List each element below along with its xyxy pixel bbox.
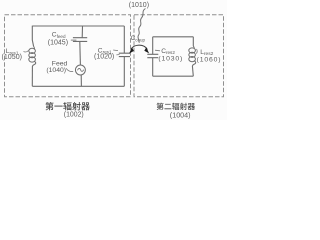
wire: left resonator right vertical upper — [123, 26, 125, 53]
svg-text:(1002): (1002) — [64, 111, 84, 118]
leader from (1020) to plates — [116, 54, 119, 56]
second radiator dashed box (1004) — [134, 15, 224, 97]
svg-text:(1060): (1060) — [197, 57, 222, 64]
inductor L_res2 coil — [192, 46, 195, 49]
svg-text:(1020): (1020) — [94, 53, 114, 60]
wire: right resonator right vertical upper — [192, 37, 194, 46]
svg-text:(1004): (1004) — [170, 111, 191, 120]
capacitor C_res2 plates — [147, 54, 158, 57]
wire: feed branch lower — [80, 75, 82, 86]
wire: left resonator bottom — [32, 85, 124, 87]
wire: left vertical lower — [31, 66, 33, 86]
leader squiggle from (1010) — [138, 9, 145, 43]
wire: left resonator right vertical lower — [123, 57, 125, 87]
svg-text:(1040): (1040) — [46, 67, 66, 74]
leader from (1045) to C_feed — [71, 39, 77, 41]
wire: right resonator left vertical lower — [152, 58, 154, 76]
wire: left vertical upper (to L_res1) — [32, 26, 33, 47]
wire: feed branch upper — [81, 26, 83, 38]
capacitor C_res1 plates — [119, 53, 130, 56]
leader to L_res1 coil — [24, 51, 29, 53]
label first radiator — [45, 102, 53, 110]
wire: right resonator left vertical upper — [152, 37, 154, 54]
sine wave inside feed — [78, 68, 84, 71]
AC source Feed circle — [75, 65, 85, 75]
inductor L_res1 coil — [33, 46, 36, 49]
svg-text:(1010): (1010) — [129, 2, 149, 9]
coupling arc C_coup with arrowheads — [131, 45, 147, 50]
wire: right resonator bottom — [153, 75, 194, 77]
leader to L_res2 coil — [196, 49, 197, 54]
label second radiator — [157, 103, 164, 110]
capacitor C_feed plates — [73, 38, 87, 42]
svg-text:(1045): (1045) — [48, 39, 68, 46]
leader from (1040) to feed circle — [66, 68, 73, 71]
leader from C_res2 to plates — [155, 49, 160, 52]
svg-text:(1050): (1050) — [2, 53, 23, 61]
leader from C_res1 to plates — [113, 49, 118, 52]
wire: feed branch middle — [79, 41, 82, 65]
wire: left resonator top — [32, 25, 124, 27]
first radiator dashed box (1002) — [5, 15, 131, 97]
wire: right resonator top — [153, 36, 194, 38]
svg-text:(1030): (1030) — [158, 56, 183, 63]
wire: right resonator right vertical lower — [191, 66, 194, 76]
